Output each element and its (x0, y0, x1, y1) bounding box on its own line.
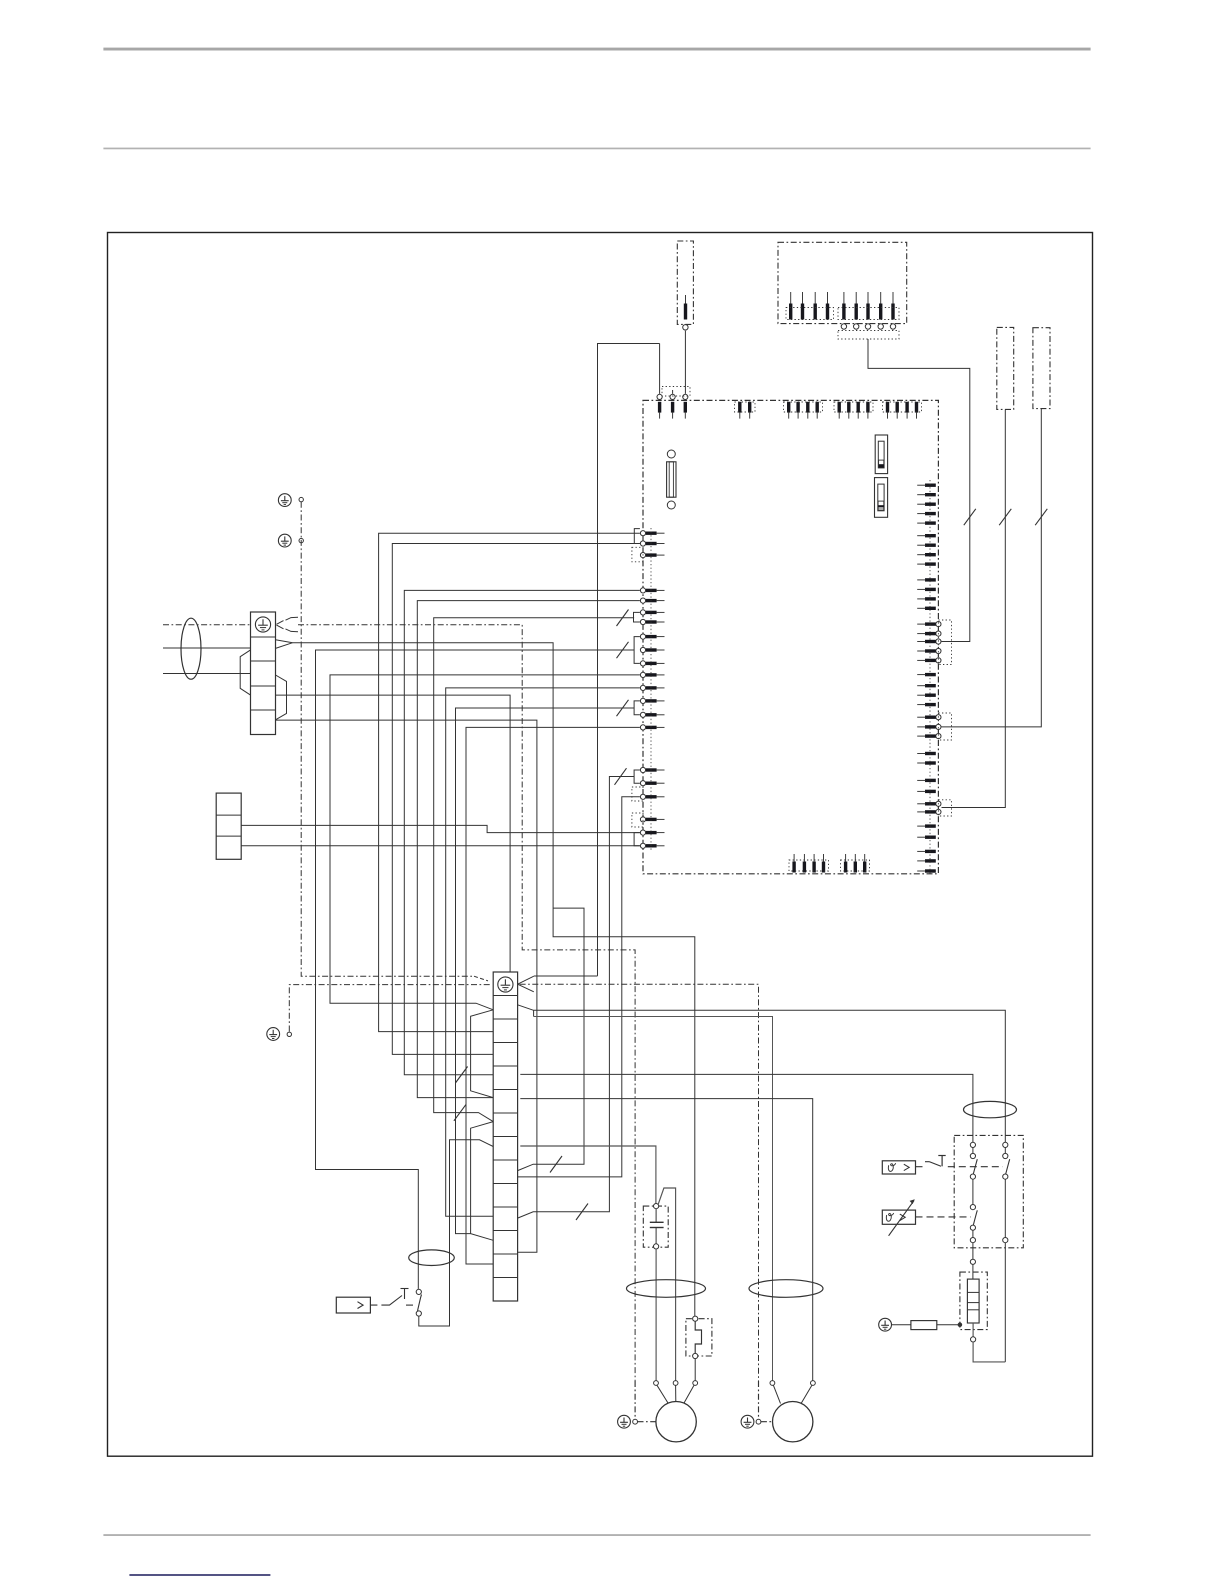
pin L-H1 (640, 767, 664, 772)
wire X3 to motor2 lead1 (534, 1017, 773, 1382)
connector housing X31 (top right 2) (1033, 328, 1050, 409)
motor2 lead circles (770, 1381, 815, 1386)
dotted box A (632, 547, 643, 562)
cable mark H (615, 768, 627, 785)
pin L-G1 (640, 725, 664, 730)
dotted box J (632, 813, 643, 827)
motor M2 (773, 1402, 813, 1442)
earth symbol heater (879, 1318, 892, 1331)
wire F loom (456, 708, 635, 1234)
motor M1 (656, 1402, 696, 1442)
door switch return wire (419, 1140, 493, 1326)
wire B1 loom (404, 590, 640, 1074)
door switch contact (416, 1289, 421, 1316)
bracket J (634, 833, 640, 846)
thermal protector contact (693, 1316, 702, 1359)
PE hook marks (286, 617, 299, 632)
selector switch S2 (875, 478, 888, 518)
bracket H (634, 770, 640, 783)
cable mark H2 (576, 1204, 588, 1221)
display module housing X20 (top) (778, 242, 907, 323)
pin L-J2 (640, 830, 664, 835)
bracket A (634, 529, 640, 544)
cable mark B1 (455, 1067, 467, 1084)
dotted box P2 (735, 402, 756, 412)
interlock left chain (970, 1142, 977, 1242)
terminal strip X3 cells (493, 996, 517, 1278)
wire capacitor to motor1 lead2 (658, 1188, 675, 1381)
bracket F (634, 701, 640, 715)
thermal protector motor1 (686, 1319, 712, 1356)
wire A1 loom (379, 533, 640, 1031)
PE net to motor 2 (520, 984, 759, 1381)
wire I loom (518, 797, 640, 1177)
motor1 lead-in lines (657, 1385, 694, 1403)
wire G loom (466, 727, 640, 1264)
wire X3 to interlock left (520, 1074, 973, 1143)
fuse F1 (667, 450, 676, 509)
socket circles X20 5-9 (841, 324, 896, 329)
strip earth arrow right (518, 976, 534, 992)
motor1 lead circles (654, 1381, 698, 1386)
wire X3 to interlock right (534, 1010, 1006, 1143)
heater R1 element (967, 1279, 979, 1323)
pin L-I1 (640, 794, 664, 799)
link stub (518, 908, 584, 1171)
wire X10 to board (684, 331, 686, 394)
wire earth to resistor (892, 1324, 911, 1326)
diagram frame (108, 233, 1093, 1457)
wire X31 to board (942, 409, 1042, 727)
dotted box H (632, 787, 643, 801)
dotted connector box X20 (838, 331, 899, 340)
header rule top (103, 48, 1090, 51)
motor1 earth symbol (618, 1415, 631, 1428)
terminal block X0 (251, 612, 276, 735)
cable mark D (617, 642, 629, 658)
dotted group X20 b (838, 308, 899, 320)
dotted pin row line right (929, 480, 931, 875)
pin L-D2 (640, 647, 664, 652)
terminal strip earth symbol (498, 977, 513, 992)
wire C loom (434, 618, 634, 1122)
motor2 lead-in lines (773, 1385, 812, 1404)
bracket C (634, 612, 640, 622)
power module A1 outline (643, 400, 938, 873)
board pins right column (917, 484, 941, 873)
PE net upper route (298, 625, 635, 1381)
mains PE conductor (163, 624, 251, 626)
pin L-B2 (640, 598, 664, 603)
capacitor C1 box (643, 1206, 668, 1247)
board pins P2 (738, 402, 751, 419)
pin L-E2 (640, 685, 664, 690)
dotted box P5 (883, 402, 922, 412)
cable mark on X31 wire (1035, 509, 1047, 525)
wire capacitor to motor1 lead1 (655, 1249, 657, 1381)
board pins P4 (838, 402, 870, 419)
terminal X0 out 3 (276, 720, 537, 1252)
wire X3 to motor2 lead2 (520, 1099, 812, 1381)
pin L-F1 (640, 698, 664, 703)
wire H loom (518, 777, 635, 1219)
terminal X0 out 1 (293, 643, 695, 1319)
arrow into earth terminal (277, 621, 284, 629)
cable mark on X30 wire (999, 509, 1011, 525)
board pins B1 (792, 854, 825, 873)
operator link dashes 2 (406, 1304, 416, 1306)
pin L-F2 (640, 712, 664, 717)
door cable sleeve (409, 1250, 455, 1266)
thermostat B3 box (882, 1210, 915, 1224)
wire A2 loom (392, 544, 640, 1055)
dotted plug box R2 (938, 713, 951, 740)
bracket D (634, 637, 640, 664)
wire E1 loom (330, 675, 640, 1010)
motor1 cable sleeve (627, 1280, 706, 1298)
dotted box B2 (841, 860, 870, 871)
motor2 PE wire (756, 1381, 772, 1424)
interlock box (954, 1135, 1023, 1247)
wire protector to motor1 (694, 1359, 696, 1381)
heater cable sleeve (964, 1101, 1017, 1117)
board pins P3 (787, 402, 819, 419)
mains wire N (163, 673, 251, 675)
cable mark link (550, 1156, 562, 1173)
board pins P5 (886, 402, 918, 419)
funnel marks X0 right (276, 640, 293, 720)
earth point E1 (278, 494, 303, 507)
dotted plug box R1 (938, 620, 951, 665)
loom back X3 left 2 (471, 1122, 494, 1241)
pin L-D3 (640, 661, 664, 666)
connector housing X10 (top small) (677, 241, 693, 324)
mains wire L (163, 647, 251, 649)
earth point E2 (278, 534, 303, 547)
wire X2-3 to board J3 (241, 845, 640, 847)
dotted box P4 (834, 402, 873, 412)
interlock right chain (1003, 1142, 1010, 1242)
heater R1 box (960, 1272, 987, 1330)
pin L-J1 (640, 817, 664, 822)
cable mark C2 (454, 1104, 466, 1121)
interlock to heater wire (970, 1243, 975, 1279)
wire X3 to capacitor (520, 1146, 656, 1204)
pins X20 1-9 (789, 292, 895, 320)
dotted box P3 (784, 402, 823, 412)
terminal X0 earth symbol (255, 617, 270, 632)
resistor R2 (911, 1321, 937, 1330)
operator link dashes 1 (370, 1304, 387, 1306)
dotted plug box R3 (938, 800, 951, 816)
earth point E3 (267, 1028, 292, 1041)
contact symbol (387, 1289, 409, 1306)
motor2 cable sleeve (749, 1280, 823, 1298)
loom back X3 right 1 (518, 1005, 534, 1017)
motor1 PE wire (633, 1381, 656, 1424)
pin L-H2 (640, 781, 664, 786)
heater bottom wire (971, 1323, 1006, 1362)
wire X2-2 to board J2 (241, 825, 640, 832)
cable mark F (617, 700, 629, 716)
PE net from earth points (301, 502, 488, 981)
connector housing X30 (top right 1) (997, 327, 1014, 409)
board pins B2 (844, 854, 867, 873)
pin X10-1 (683, 295, 688, 330)
capacitor C1 (650, 1204, 664, 1250)
wire X20-7 to board right edge (868, 339, 970, 642)
pin L-D1 (640, 634, 664, 639)
terminal strip X3 body (493, 972, 517, 1301)
mains cable sleeve (181, 618, 201, 679)
dotted box B1 (789, 860, 829, 871)
cable mark C (617, 610, 629, 627)
thermostat B2 box (882, 1161, 915, 1174)
pin L-C1 (640, 610, 664, 615)
wire E2 loom (446, 688, 640, 1216)
wire resistor to heater (937, 1323, 962, 1327)
pin L-J3 (640, 843, 664, 848)
header rule 2 (103, 148, 1090, 150)
footer link underline (129, 1574, 270, 1576)
pin L-E1 (640, 672, 664, 677)
selector switch S1 (875, 435, 887, 474)
dotted group X20 a (786, 308, 834, 320)
interlock right return (1004, 1243, 1006, 1362)
dotted pin row line left (650, 528, 652, 850)
PE branch to earth point E3 (289, 985, 491, 1032)
pressure switch B1 box (336, 1297, 370, 1313)
pin L-A3 (640, 553, 664, 558)
reset contact symbol (925, 1156, 946, 1167)
dotted box P1 (662, 387, 690, 397)
wire B2 loom (417, 601, 640, 1098)
operator dashes B3 (916, 1216, 972, 1218)
loom back X3 left 1 (471, 1010, 494, 1098)
funnel marks X0 left (240, 650, 250, 695)
connector block X2 (216, 793, 241, 859)
board plug P1 pins (657, 344, 688, 419)
pin L-B1 (640, 588, 664, 593)
motor2 earth symbol (741, 1415, 754, 1428)
pin L-A1 (640, 531, 664, 536)
cable mark on X20 wire (964, 509, 976, 525)
pin L-C2 (640, 619, 664, 624)
wire P1-1 left (598, 344, 660, 976)
wire P1-1 into strip (534, 975, 598, 977)
wire D loom (316, 650, 635, 1289)
footer rule (103, 1534, 1090, 1536)
thermostat B3 arrow (889, 1199, 915, 1236)
terminal X0 out 2 (276, 695, 511, 972)
wire X30 to board (942, 409, 1006, 807)
operator dashes B2 (916, 1166, 926, 1168)
operator dashes B2b (948, 1166, 1003, 1168)
pin L-A2 (640, 541, 664, 546)
terminal X0 cells (251, 637, 276, 710)
